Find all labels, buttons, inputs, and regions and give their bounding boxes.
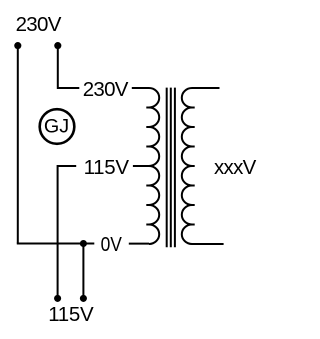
transformer T1 secondary winding (8 turns) with leads	[182, 88, 224, 244]
transformer T1 primary winding (8 turns)	[149, 88, 159, 244]
node: 115V bottom terminal left	[54, 295, 61, 302]
wire: junction down to bottom terminal	[82, 244, 84, 299]
logo GJ circle	[40, 109, 75, 144]
svg-text:GJ: GJ	[44, 116, 69, 138]
transformer core (3 lamination lines)	[167, 88, 175, 248]
wire: left vertical from input down to 0V rail	[17, 46, 19, 244]
wire: 115V tap left segment, elbow down to bottom terminal	[58, 166, 77, 298]
wire: right input down then right toward 230V tap label	[58, 46, 80, 88]
junction node on 0V rail	[80, 240, 87, 247]
svg-text:115V: 115V	[84, 156, 130, 179]
svg-text:230V: 230V	[16, 13, 62, 36]
wire: 0V rail horizontal left part	[17, 243, 95, 245]
svg-text:115V: 115V	[48, 303, 94, 326]
node: input terminal right	[54, 42, 61, 49]
svg-text:0V: 0V	[101, 233, 123, 256]
node: input terminal left	[14, 42, 21, 49]
node: 115V bottom terminal right	[80, 295, 87, 302]
wire: 115V tap lead from winding	[133, 165, 149, 167]
svg-text:xxxV: xxxV	[214, 156, 257, 179]
wire: 230V tap lead into winding	[132, 87, 149, 89]
winding turn junction ticks (secondary valleys)	[192, 108, 195, 225]
svg-text:230V: 230V	[83, 78, 129, 101]
wire: 0V rail segment into winding	[129, 243, 149, 245]
winding turn junction ticks (primary valleys)	[146, 108, 149, 225]
